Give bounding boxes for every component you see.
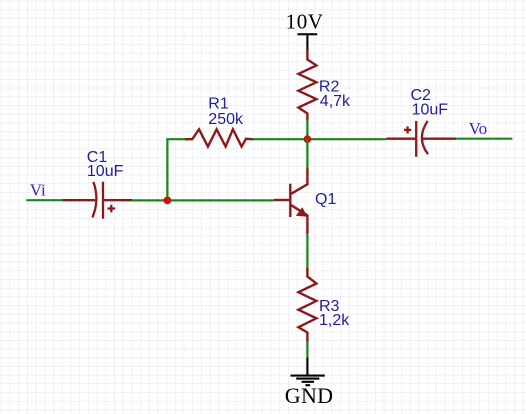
svg-text:10uF: 10uF [87, 163, 124, 180]
label C1 [87, 149, 108, 166]
resistor R3 [298, 269, 316, 341]
capacitor C1 [63, 182, 133, 219]
transistor Q1 [274, 167, 308, 234]
resistor R2 [298, 51, 316, 119]
node Vo [469, 119, 488, 138]
wire R1 to junction [252, 138, 307, 140]
wire R2 bottom to junction [306, 120, 308, 140]
ground [291, 358, 325, 386]
svg-text:4,7k: 4,7k [320, 93, 351, 110]
capacitor C2 [386, 121, 456, 157]
wire collector to junction [306, 139, 308, 167]
label R3 [319, 298, 340, 315]
wire junction to C2 [307, 138, 386, 140]
resistor R1 [186, 129, 252, 146]
junction node at R2/R1/C2/collector [304, 135, 312, 143]
label 4,7k [320, 93, 351, 110]
svg-text:1,2k: 1,2k [319, 312, 350, 329]
svg-text:Q1: Q1 [315, 191, 336, 208]
label Q1 [315, 191, 336, 208]
node Vi [30, 181, 46, 200]
label C2 10uF [412, 101, 449, 118]
wire base junction to Q1 base [167, 199, 273, 201]
power symbol +10V [298, 34, 318, 51]
wire emitter to R3 [306, 234, 308, 269]
svg-text:R1: R1 [208, 95, 229, 112]
junction node at base [164, 197, 172, 205]
label C2 [411, 87, 432, 104]
wire C2 to Vo [456, 138, 512, 140]
label R2 [319, 79, 340, 96]
label 1,2k [319, 312, 350, 329]
wire main horizontal left: corner to R1 [167, 139, 186, 200]
label 250k [208, 111, 244, 128]
svg-text:10V: 10V [286, 10, 324, 34]
label R1 [208, 95, 229, 112]
svg-text:250k: 250k [208, 111, 244, 128]
svg-text:10uF: 10uF [412, 101, 449, 118]
svg-text:GND: GND [285, 383, 334, 408]
label C1 10uF [87, 163, 124, 180]
wire C1 to base junction [132, 199, 167, 201]
svg-text:Vi: Vi [30, 181, 46, 200]
wire Vi to C1 [26, 199, 62, 201]
wire R3 to ground [306, 341, 308, 358]
label GND [285, 383, 334, 408]
svg-text:Vo: Vo [469, 119, 488, 138]
power label 10V [286, 10, 324, 34]
